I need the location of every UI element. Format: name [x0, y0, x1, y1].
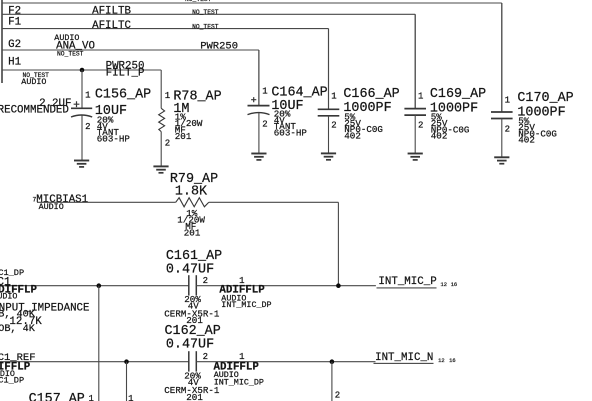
- capacitor C166 (1000PF): [318, 29, 340, 154]
- svg-text:NO_TEST: NO_TEST: [192, 9, 219, 16]
- ground at R78: [153, 166, 168, 172]
- svg-text:C157_AP: C157_AP: [29, 392, 85, 401]
- svg-text:2: 2: [203, 352, 208, 362]
- wire net PWR250 FILT_P (H1 row): [2, 69, 161, 71]
- svg-text:1: 1: [331, 92, 336, 102]
- svg-text:AFILTB: AFILTB: [92, 6, 131, 18]
- svg-text:2: 2: [262, 120, 267, 130]
- svg-text:NO_TEST: NO_TEST: [192, 23, 219, 30]
- svg-text:C156_AP: C156_AP: [95, 88, 151, 103]
- attributes R79 (1% 1/20W MF 201): [177, 208, 205, 238]
- attributes C169 (5% 25V NP0-C0G 402): [431, 112, 470, 142]
- wire R79 to INT_MIC_P node: [209, 202, 339, 285]
- svg-text:1.8K: 1.8K: [175, 185, 208, 200]
- svg-text:201: 201: [175, 131, 192, 142]
- junction H1 node FILT_P: [80, 68, 85, 73]
- svg-text:2: 2: [335, 390, 340, 400]
- ground at C170: [494, 157, 509, 163]
- svg-text:G2: G2: [8, 39, 21, 51]
- svg-text:402: 402: [518, 135, 535, 146]
- capacitor C170 (1000PF): [491, 3, 513, 157]
- svg-text:RECOMMENDED: RECOMMENDED: [0, 104, 69, 116]
- attributes C162 (20% 4V CERM-X5R-1 201): [164, 371, 220, 401]
- wire net INT_MIC_P left segment: [0, 285, 189, 287]
- attributes C164 (20% 4V TANT 603-HP): [274, 108, 308, 138]
- svg-text:C166_AP: C166_AP: [343, 87, 399, 102]
- note 2.2UF RECOMMENDED: [0, 98, 72, 116]
- capacitor C164 (polarized 10UF): [248, 50, 270, 154]
- svg-text:1: 1: [89, 394, 94, 401]
- ground at C169: [408, 154, 423, 160]
- capacitor C162 (0.47UF series): [189, 351, 376, 371]
- wire MICBIAS1 to R79: [37, 201, 176, 203]
- svg-text:INT_MIC_DP: INT_MIC_DP: [221, 300, 271, 310]
- svg-text:FILT_P: FILT_P: [106, 67, 145, 79]
- IC U1 body edge (audio codec, off-sheet left): [1, 0, 3, 83]
- attributes R78 (1% 1/20W MF 201): [175, 112, 203, 142]
- net label INT_MIC_N with page refs 12 16: [374, 352, 456, 364]
- capacitor C169 (1000PF): [404, 14, 426, 153]
- capacitor C161 (0.47UF series): [189, 275, 376, 295]
- svg-text:1: 1: [165, 91, 170, 101]
- labels AUDIO INT_MIC_DP: [221, 293, 271, 310]
- svg-text:2: 2: [331, 121, 336, 131]
- wire down from INT_MIC_N junction: [126, 362, 128, 401]
- wire net ANA_VO PWR250 (to C164): [2, 50, 259, 106]
- svg-text:2: 2: [418, 121, 423, 131]
- svg-text:INT_MIC_DP: INT_MIC_DP: [214, 378, 264, 388]
- svg-text:AUDIO: AUDIO: [39, 202, 64, 212]
- wire down from INT_MIC_N to lower part: [331, 362, 333, 401]
- junction INT_MIC_P / MICBIAS1: [336, 283, 341, 288]
- ground at C166: [321, 153, 336, 159]
- svg-text:603-HP: 603-HP: [97, 134, 131, 145]
- wire down to C157: [98, 286, 100, 401]
- svg-text:1: 1: [128, 394, 133, 401]
- junction INT_MIC_N / lower branch: [330, 359, 335, 364]
- svg-text:1: 1: [262, 87, 267, 97]
- svg-text:C170_AP: C170_AP: [517, 91, 573, 106]
- svg-text:AUDIO: AUDIO: [21, 77, 46, 87]
- svg-text:AFILTC: AFILTC: [92, 20, 131, 32]
- wire net AFILTC (to C166): [2, 29, 329, 110]
- capacitor C156 (polarized 10UF): [71, 70, 92, 161]
- svg-text:603-HP: 603-HP: [274, 128, 308, 139]
- junction INT_MIC_P to C157: [97, 283, 102, 288]
- svg-text:AUDIO: AUDIO: [0, 291, 17, 301]
- svg-text:F1: F1: [8, 16, 21, 28]
- junction INT_MIC_N branch: [124, 359, 129, 364]
- svg-text:402: 402: [344, 131, 361, 142]
- svg-text:C1_DP: C1_DP: [0, 375, 24, 385]
- attributes C156 (20% 4V TANT 603-HP): [97, 114, 131, 144]
- net label INT_MIC_P with page refs 12 16: [377, 276, 458, 288]
- svg-text:12: 12: [441, 282, 447, 288]
- wire net INT_MIC_N left segment: [0, 361, 189, 363]
- svg-text:NO_TEST: NO_TEST: [57, 50, 84, 57]
- svg-text:201: 201: [184, 227, 201, 238]
- attributes C161 (20% 4V CERM-X5R-1 201): [164, 294, 220, 326]
- svg-text:INT_MIC_N: INT_MIC_N: [375, 352, 433, 364]
- svg-text:2: 2: [505, 125, 510, 135]
- ground at C156: [74, 161, 89, 167]
- svg-text:0.47UF: 0.47UF: [166, 263, 214, 278]
- svg-text:OB, 4K: OB, 4K: [0, 324, 36, 335]
- svg-text:2: 2: [85, 122, 90, 132]
- svg-text:402: 402: [431, 131, 448, 142]
- wire net AFILTB (to C169): [2, 14, 415, 108]
- svg-text:PWR250: PWR250: [200, 41, 238, 53]
- svg-text:0.47UF: 0.47UF: [166, 337, 214, 352]
- svg-text:201: 201: [186, 392, 203, 401]
- svg-text:H1: H1: [8, 56, 21, 68]
- ground at C164: [251, 154, 266, 160]
- wire net row1 (top, to C170): [2, 3, 502, 112]
- svg-text:NO_TEST: NO_TEST: [185, 0, 212, 3]
- svg-text:1: 1: [85, 90, 90, 100]
- svg-text:16: 16: [449, 358, 455, 364]
- labels AUDIO INT_MIC_DP row2: [214, 370, 264, 388]
- resistor R78 (1M): [159, 70, 165, 166]
- svg-text:16: 16: [451, 282, 457, 288]
- net label MICBIAS1 with page ref 7: [33, 194, 89, 206]
- svg-text:1: 1: [418, 92, 423, 102]
- svg-text:2: 2: [165, 139, 170, 149]
- attributes C166 (5% 25V NP0-C0G 402): [344, 111, 383, 141]
- svg-text:1: 1: [505, 96, 510, 106]
- resistor R79 (1.8K): [176, 198, 209, 207]
- svg-text:12: 12: [438, 358, 444, 364]
- svg-text:C169_AP: C169_AP: [430, 87, 486, 102]
- attributes C170 (5% 25V NP0-C0G 402): [518, 116, 557, 146]
- note INPUT IMPEDANCE: [0, 302, 90, 335]
- svg-text:INT_MIC_P: INT_MIC_P: [378, 276, 436, 288]
- svg-text:1: 1: [239, 352, 244, 362]
